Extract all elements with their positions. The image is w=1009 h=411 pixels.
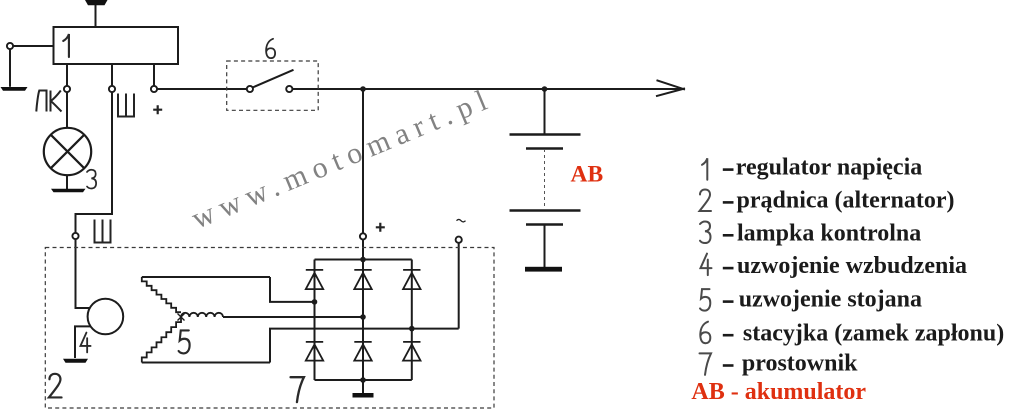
node star point (178, 314, 185, 321)
rectifier bottom bus (315, 379, 412, 381)
regulator U1 box (54, 27, 179, 64)
wire: lamp to ground (66, 175, 68, 189)
legend digit 3 (700, 222, 711, 244)
node + terminal of regulator (151, 86, 157, 92)
legend digit 7 (700, 353, 712, 375)
wire: left diode column (314, 260, 316, 381)
ground symbols (solid bars) (1, 0, 563, 398)
svg-text:AB - akumulator: AB - akumulator (691, 379, 866, 405)
wire: junction to battery (544, 89, 546, 135)
battery AB long plate 1 (510, 133, 581, 136)
stator lower winding zigzag (142, 317, 181, 362)
node: phase B junction (360, 314, 366, 320)
switch S1 arm (253, 70, 294, 88)
wire: phase A to left diode column (270, 277, 315, 302)
label 1 (regulator) (63, 34, 69, 57)
legend dash row4 (723, 267, 734, 270)
svg-text:lampka kontrolna: lampka kontrolna (737, 220, 921, 246)
rotor L1 circle (88, 299, 124, 335)
label LK (36, 91, 61, 112)
legend digit 6 (700, 322, 710, 344)
node: phase A junction (312, 299, 318, 305)
wire: rectifier ground stem (362, 380, 364, 393)
diode VD4 (306, 342, 323, 361)
label + (regulator) (153, 105, 162, 114)
node LK terminal (64, 86, 70, 92)
wire: stub LK terminal (66, 64, 68, 86)
node: bottom bus junction (360, 377, 366, 383)
battery AB short plate 2 (526, 223, 563, 226)
wire: rotor lower brush to ground (75, 326, 91, 358)
label Sh (alternator) (95, 220, 111, 243)
stator upper winding zigzag (142, 277, 181, 312)
arrow head (656, 80, 685, 96)
alternator G1 enclosure (45, 248, 494, 409)
svg-text:prądnica (alternator): prądnica (alternator) (737, 188, 955, 214)
diode VD3 (403, 270, 420, 289)
svg-text:AB: AB (571, 162, 604, 188)
diode VD5 (354, 342, 371, 361)
wire: main bus left of switch (157, 88, 247, 90)
svg-text:www.motomart.pl: www.motomart.pl (187, 84, 492, 235)
wire: left terminal to box (13, 45, 54, 47)
node Sh terminal (109, 86, 115, 92)
lamp HL1 cross (51, 135, 85, 169)
svg-text:stacyjka (zamek zapłonu): stacyjka (zamek zapłonu) (743, 320, 1004, 346)
junction dots (312, 86, 548, 383)
stator top lead wire (142, 276, 270, 278)
rectifier top bus (315, 259, 412, 261)
diode VD2 (354, 270, 371, 289)
wire: top ground stem (95, 4, 97, 27)
wire: stub Sh terminal (111, 64, 113, 86)
node: phase C junction (409, 326, 415, 332)
legend digit 1 (702, 158, 707, 180)
switch S1 enclosure (227, 61, 319, 110)
terminal circles (7, 43, 462, 243)
battery cells dashed link (544, 149, 546, 210)
legend dash row3 (723, 234, 734, 237)
svg-text:regulator napięcia: regulator napięcia (736, 155, 922, 181)
wire: LK terminal down to lamp (66, 92, 68, 128)
label + (rectifier) (376, 223, 385, 232)
legend digit 2 (700, 190, 712, 212)
node: bus/battery junction (542, 86, 548, 92)
wire: middle diode column (362, 260, 364, 381)
wire: phase C to right column and AC terminal (270, 329, 459, 363)
wire: left terminal down to ground (9, 49, 11, 87)
legend digit 4 (701, 254, 712, 276)
legend dash row1 (723, 168, 734, 171)
node: top bus junction (360, 257, 366, 263)
legend digits (700, 158, 712, 375)
legend dash row7 (723, 364, 734, 367)
switch S1 left contact (247, 86, 253, 92)
legend digit 5 (700, 289, 710, 311)
switch S1 right contact (286, 86, 292, 92)
label 7 (rectifier) (291, 377, 304, 402)
battery AB short plate 1 (526, 147, 563, 150)
ground below rotor (63, 359, 88, 363)
lamp HL1 circle (44, 128, 91, 175)
node: bus/rectifier junction (360, 86, 366, 92)
wire: + terminal into rectifier bus (362, 239, 364, 259)
label 3 (lamp) (87, 170, 96, 189)
legend dash row6 (723, 334, 734, 337)
svg-text:uzwojenie wzbudzenia: uzwojenie wzbudzenia (737, 253, 967, 279)
svg-text:prostownik: prostownik (742, 351, 858, 377)
node ~ terminal of alternator (456, 237, 462, 243)
wire: main bus right of switch to arrow (292, 88, 684, 90)
legend dashes (723, 170, 734, 366)
ground below rectifier (353, 393, 374, 398)
svg-text:uzwojenie stojana: uzwojenie stojana (739, 287, 922, 313)
wire: Sh terminal down, jog left to rotor terminal (76, 92, 113, 233)
label 2 (alternator) (49, 374, 62, 398)
label ~ (AC terminal) (457, 219, 466, 222)
schematic digit labels (49, 34, 304, 402)
wire: phase B to middle diode column (223, 316, 363, 318)
legend dash row5 (723, 300, 734, 303)
diode VD1 (306, 270, 323, 289)
stator bottom lead wire (142, 362, 270, 364)
wire: junction down to + terminal of rectifier (362, 91, 364, 233)
ground left terminal (1, 87, 28, 91)
dashed enclosures (45, 61, 494, 408)
wire: right diode column (411, 260, 413, 381)
wire: rotor terminal down into alternator (76, 239, 90, 308)
battery negative bar (525, 267, 562, 272)
label Sh (regulator) (118, 94, 134, 117)
node Sh terminal of alternator (72, 233, 78, 239)
wire: battery inner stem (544, 225, 546, 268)
wire: stub + terminal (153, 64, 155, 86)
stator middle winding coil (181, 313, 223, 317)
wires and component outlines (10, 4, 685, 393)
diode VD6 (403, 342, 420, 361)
ground below lamp (51, 189, 86, 193)
ground top of regulator (85, 0, 108, 5)
wire: AC terminal drop (458, 243, 460, 329)
label 6 (switch) (266, 39, 275, 58)
label 5 (stator winding) (179, 330, 190, 353)
label 4 (rotor winding) (80, 333, 90, 353)
legend texts (691, 155, 1004, 405)
battery AB long plate 2 (510, 209, 581, 212)
node: left ground terminal (7, 43, 13, 49)
node + terminal of rectifier (360, 233, 366, 239)
legend dash row2 (723, 201, 734, 204)
